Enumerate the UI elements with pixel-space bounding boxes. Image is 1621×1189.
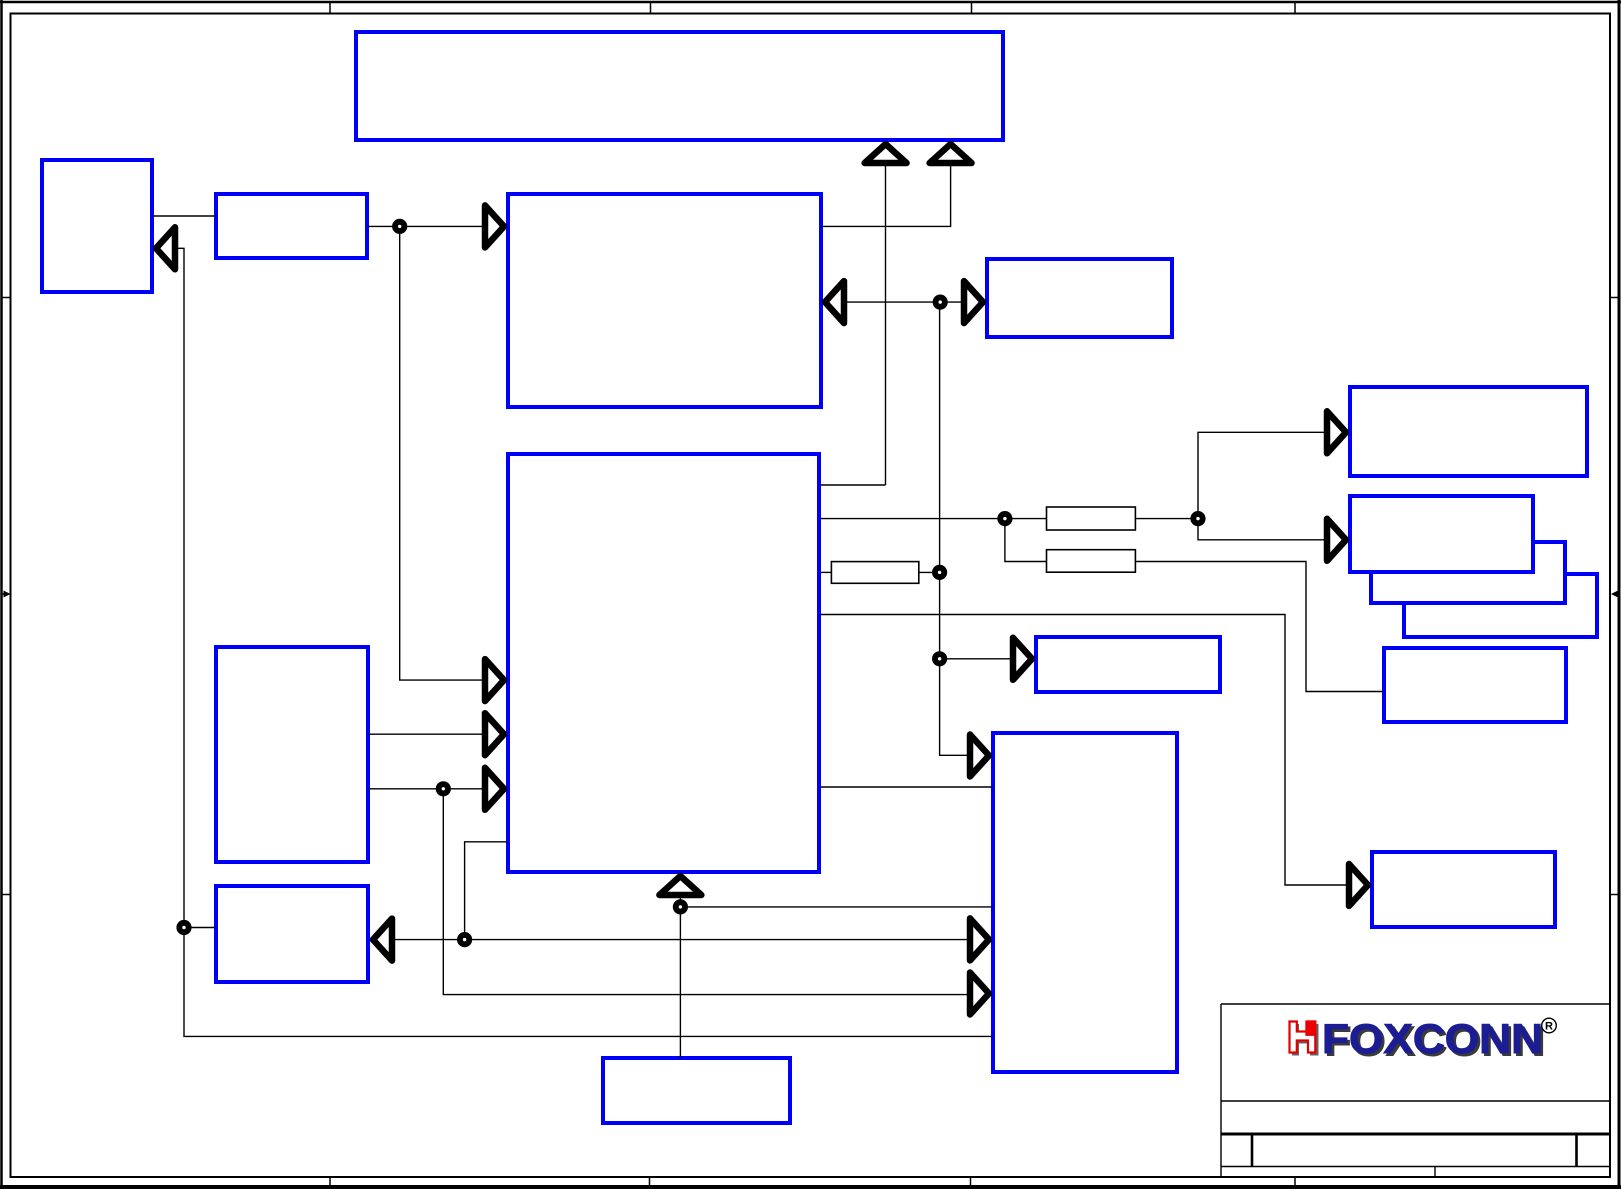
wire B14 to B6 pin c [368,788,486,790]
block B16 bottom right tall [993,733,1177,1072]
wire B6 to B13 long [821,615,1350,886]
wire B14 to B6 pin b [368,733,486,735]
connector into B5 [964,281,983,323]
connector into B7 [1327,411,1346,453]
wire B6 right to B16 direct [821,786,993,788]
frame zone ticks top [330,2,1295,14]
connector into B6 pin c [485,768,504,810]
wire B6 right to up-triangle1 [821,484,886,486]
junction below B15 triangle wire [457,932,472,947]
connector into B4 [485,205,504,247]
block B2 left small [42,160,152,292]
Foxconn logo H icon [1290,1022,1316,1053]
wire dot down to B8 triangle [1198,519,1328,540]
wire Rc right lead [919,571,940,573]
frame zone ticks left [2,298,11,895]
connector out of B2 [156,227,175,269]
block B9 overlapped middle [1371,542,1565,603]
junction at Ra output [1190,511,1205,526]
wire left rail branch to B15 [184,927,216,929]
wire B2 to B3 [152,215,216,217]
block B14 left mid [216,647,368,862]
wire B15 triangle to B16 triangle2 [390,939,971,941]
wire dot up to B7 triangle [1198,432,1328,518]
wire B6 left lower L [465,842,508,940]
connector into B8 [1327,519,1346,561]
junction below B6 up-triangle [673,899,688,914]
junction on bus at Rb tap [997,511,1012,526]
block B12 mid small [1036,637,1220,692]
block B17 bottom center [603,1058,790,1123]
registered mark [1542,1018,1557,1033]
svg-text:R: R [1545,1021,1553,1033]
wire Rb left lead [1005,519,1047,562]
junction at Rc output [932,565,947,580]
connector into B6 pin b [485,713,504,755]
wire dot788 drop to B16 triangle3 [443,789,971,995]
wire B6 to Rc [821,571,831,573]
wire B3 to junction to B4 [367,225,486,227]
wire B4 right to up-triangle2 [821,163,951,226]
block B4 upper CPU [508,194,821,407]
wire dot to B16 direct [680,906,993,908]
wire up-triangle1 vertical [885,163,887,485]
frame zone ticks right [1611,298,1619,895]
wire bus B6 to Ra [821,518,1047,520]
wire junction drop to B6 pin a [400,226,486,680]
junction at B12 wire [932,651,947,666]
resistor Rb [1047,550,1136,573]
block B11 right mid [1384,648,1566,722]
resistor Rc [831,562,918,584]
connector into B16 low [970,973,989,1015]
connector up into B6 bottom [659,876,701,895]
svg-text:FOXCONN: FOXCONN [1322,1015,1543,1062]
connector into B16 top [970,735,989,777]
frame zone ticks bottom [330,1177,1295,1187]
block B15 left lower [216,886,368,982]
wire dot to B12 triangle [940,658,1014,660]
block B8 overlapped top [1350,496,1533,572]
wire Rb right to B11 [1135,562,1384,692]
connector into B6 pin a [485,659,504,701]
connector up into B1 right [930,144,972,163]
Foxconn logo H red block [1305,1020,1316,1036]
junction between B4 and B5 [933,295,948,310]
connector out of B15 [373,919,392,961]
block B1 top banner [356,32,1003,140]
frame right midpoint arrow [1611,591,1619,598]
block B6 central chipset [508,454,819,872]
connector into B12 [1013,638,1032,680]
wire B2 triangle stub down left rail [174,248,993,1036]
block B7 right top [1350,387,1587,476]
connector out of B4 right [825,281,844,323]
block B13 lower right [1372,852,1555,927]
junction on B14 pin c wire [436,781,451,796]
connector into B16 mid [970,918,989,960]
wire B4 out triangle to B5 triangle [824,301,965,303]
resistor Ra [1047,507,1136,530]
connector into B13 [1349,864,1368,906]
wire dot302 drop [940,302,971,755]
frame left midpoint arrow [2,591,11,598]
title block outline [1221,1004,1610,1177]
connector up into B1 left [865,144,907,163]
junction at B3 output [392,219,407,234]
wire up-triangle3 to dot to B16 [679,897,681,1058]
wire Ra right lead to dot [1135,518,1198,520]
block B10 overlapped lowest [1404,574,1597,637]
block B5 NE small [987,259,1172,337]
Foxconn logo H icon shadow [1292,1024,1319,1056]
junction on left rail at B15 [176,920,191,935]
block B3 clockgen [216,194,367,258]
